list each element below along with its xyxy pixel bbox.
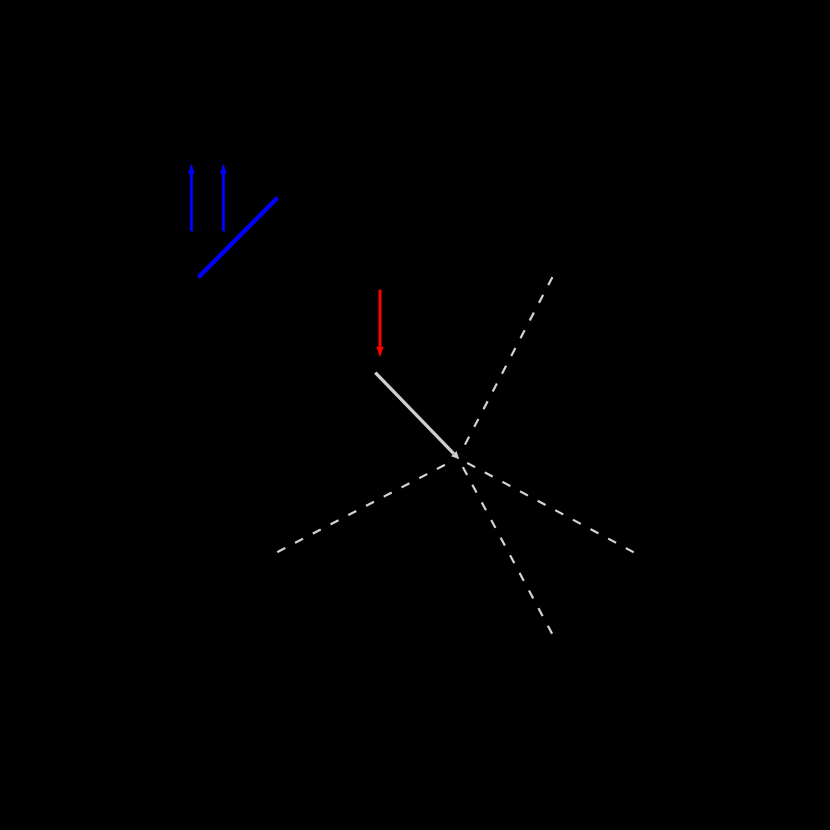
dashed scattered ray up-right [460,277,553,454]
dashed scattered ray down-steep [460,462,552,634]
dashed scattered ray down-right [462,460,634,552]
red arrow (incident ray, pointing down) [376,290,383,358]
blue arrow 1 (incident photon, left) [188,164,195,232]
gray solid scattered-ray arrow (into hub) [375,373,459,460]
blue arrow 2 (incident photon, right) [220,164,227,232]
blue wavefront line (thick diagonal) [200,199,277,276]
dashed scattered ray down-left [277,460,454,552]
